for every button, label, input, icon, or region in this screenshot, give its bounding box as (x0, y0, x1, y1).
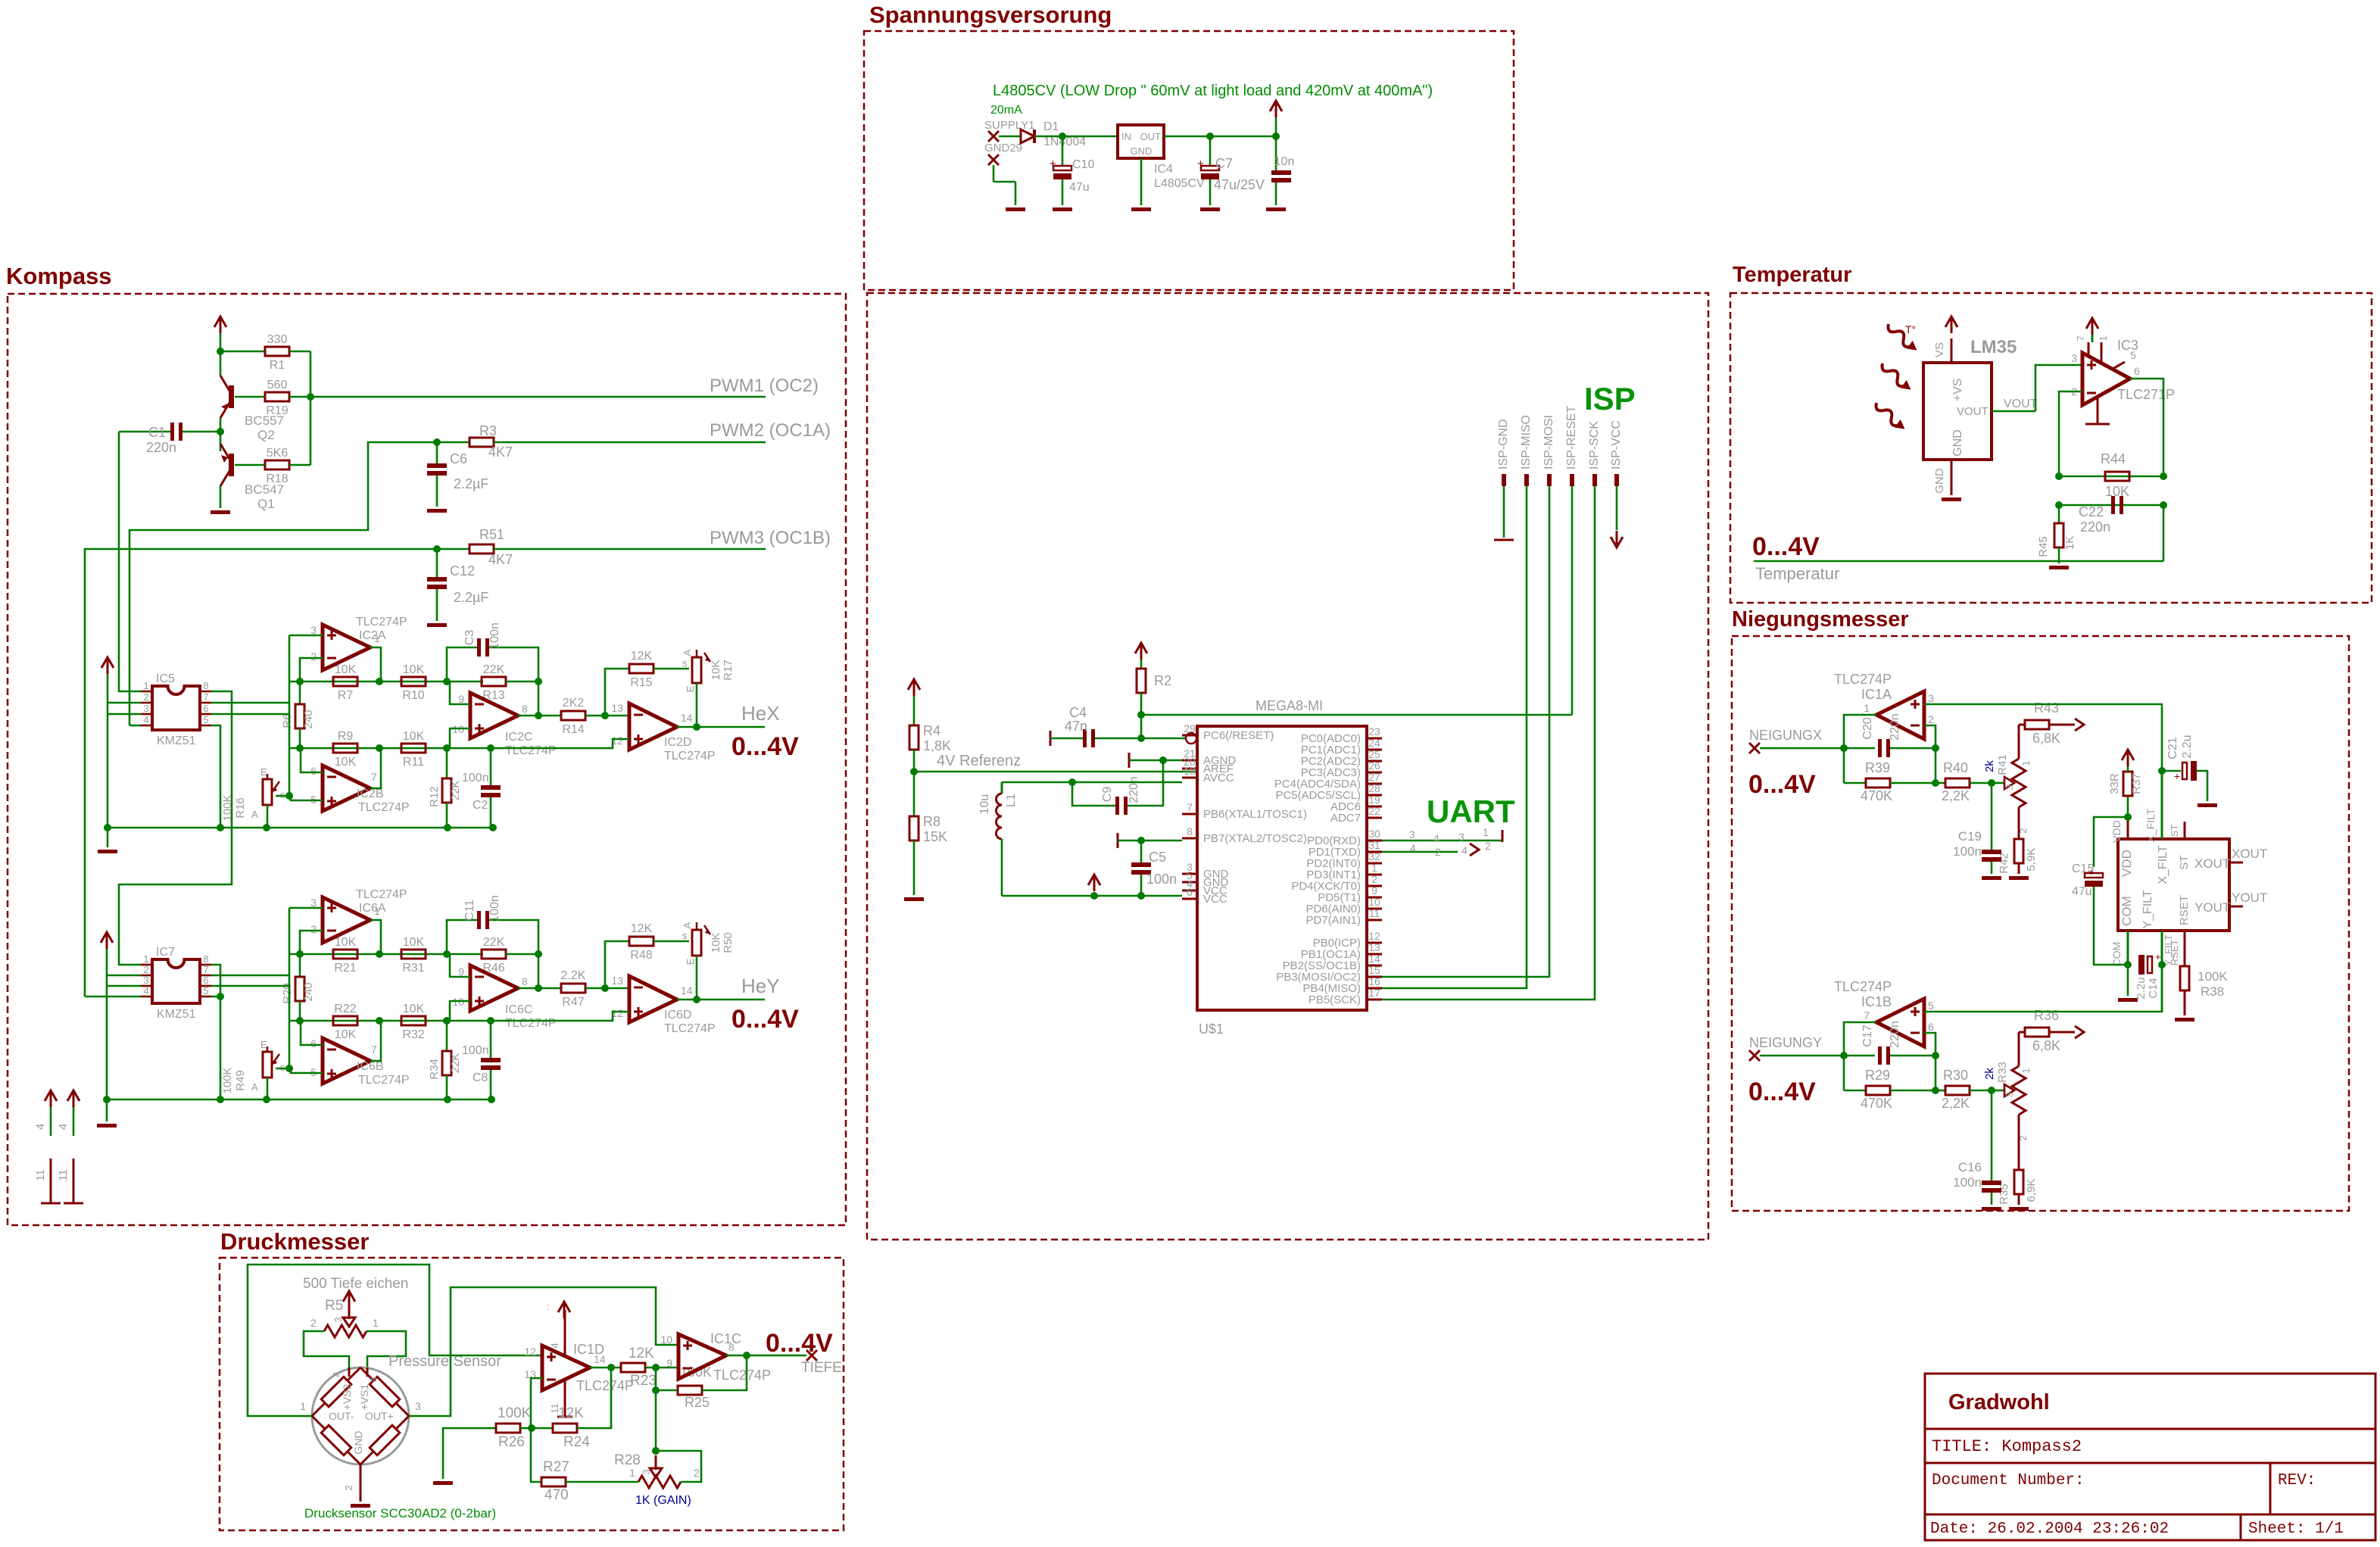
wire input to node (1760, 1055, 1875, 1057)
svg-text:IC6B: IC6B (357, 1060, 384, 1073)
svg-text:X_FILT: X_FILT (2144, 808, 2157, 842)
svg-text:4: 4 (57, 1124, 70, 1130)
svg-text:C17: C17 (1861, 1025, 1874, 1046)
pin 3 IC5 (141, 713, 152, 716)
svg-text:3: 3 (2004, 784, 2015, 790)
wire VCC-GND column IC7 (106, 949, 108, 1099)
resistor R26 100K (486, 1427, 496, 1430)
bridge resistors (312, 1368, 360, 1416)
supply arrow VCC IC7 (101, 932, 113, 943)
svg-text:10K: 10K (403, 1003, 425, 1015)
svg-text:GND: GND (1951, 429, 1964, 457)
svg-text:C5: C5 (1149, 850, 1166, 865)
svg-text:R22: R22 (334, 1003, 356, 1015)
svg-text:R49: R49 (234, 1070, 247, 1091)
resistor R34 22K vertical (446, 1021, 448, 1051)
IC1D power pin4 (564, 1310, 566, 1356)
resistor R27 470 (531, 1428, 541, 1482)
ground under R42 (2009, 876, 2029, 880)
svg-text:TLC271P: TLC271P (2117, 387, 2175, 402)
svg-text:2,2K: 2,2K (1942, 1096, 1970, 1111)
IC3 gnd pin4 (2097, 397, 2099, 424)
svg-text:R19: R19 (266, 404, 288, 417)
wire Q1 base to R18 (235, 464, 265, 466)
svg-text:30: 30 (1368, 828, 1380, 840)
pin 30 PD0(RXD) (1367, 840, 1382, 842)
svg-text:TLC274P: TLC274P (664, 1022, 716, 1035)
svg-text:VS: VS (1933, 342, 1946, 357)
svg-text:5,9K: 5,9K (2025, 848, 2038, 872)
resistor R31 10K (401, 950, 426, 959)
svg-text:HeY: HeY (741, 975, 780, 997)
wire Q1 emitter to ground (220, 486, 222, 508)
svg-text:220n: 220n (2080, 519, 2110, 535)
power stub pin11 b (73, 1159, 75, 1203)
svg-text:23: 23 (1368, 725, 1380, 738)
svg-text:5: 5 (1928, 1000, 1934, 1012)
resistor R19 560 (265, 392, 289, 401)
svg-text:470: 470 (544, 1487, 569, 1503)
svg-text:3: 3 (310, 624, 317, 636)
svg-text:10K: 10K (335, 1028, 357, 1041)
svg-text:R10: R10 (402, 689, 424, 702)
svg-text:s: s (280, 789, 285, 800)
ground under R38 (2175, 1018, 2194, 1021)
svg-text:7: 7 (371, 1043, 377, 1056)
capacitor C4 47n (1050, 731, 1052, 746)
capacitor C16 100n (1991, 1090, 1993, 1181)
supply arrow LM35 (1945, 317, 1957, 327)
transistor Q2 BC557 (220, 351, 222, 376)
pin VDD top (2127, 817, 2129, 839)
op-amp IC2A (323, 625, 370, 670)
svg-text:NEIGUNGY: NEIGUNGY (1749, 1035, 1822, 1050)
svg-text:R27: R27 (543, 1459, 569, 1475)
pin 23 PC0(ADC0) (1367, 738, 1382, 740)
wire ISP-MISO to PB4 (1382, 486, 1527, 988)
svg-text:X_FILT: X_FILT (2157, 845, 2169, 884)
svg-text:Temperatur: Temperatur (1755, 564, 1839, 583)
pin X_FILT top (2161, 771, 2163, 839)
wire IC1D out (590, 1367, 622, 1369)
capacitor C8 100n (490, 1021, 492, 1058)
svg-text:R11: R11 (403, 756, 424, 769)
svg-text:C14: C14 (2147, 978, 2160, 999)
pin 15 PB3(MOSI/OC2) (1367, 976, 1382, 978)
wire IC6C minus to node (450, 954, 470, 977)
svg-text:7: 7 (2075, 335, 2086, 341)
ground ISP (1494, 539, 1514, 541)
capacitor C20 220n (1878, 739, 1882, 757)
svg-text:4K7: 4K7 (488, 444, 513, 460)
svg-text:7: 7 (371, 771, 377, 783)
svg-text:2: 2 (143, 691, 148, 703)
wire column to IC2A plus (289, 635, 323, 637)
svg-text:3: 3 (2004, 1092, 2015, 1097)
svg-text:240: 240 (302, 982, 315, 1001)
input column X (289, 635, 291, 796)
wire MEGA8 reset net (1141, 714, 1572, 716)
svg-text:R44: R44 (2101, 451, 2126, 466)
wire IC2B out (370, 748, 381, 788)
wire PWM2 to IC5 pin4 (129, 725, 141, 727)
svg-text:8: 8 (203, 680, 208, 691)
svg-text:C12: C12 (450, 563, 475, 579)
supply arrow R37 (2122, 750, 2134, 760)
svg-text:C21: C21 (2166, 737, 2179, 759)
svg-text:4: 4 (143, 714, 148, 725)
resistor R4 1.8K (909, 725, 919, 750)
svg-text:8: 8 (728, 1341, 735, 1353)
svg-text:R47: R47 (562, 996, 584, 1009)
svg-text:R24: R24 (563, 1434, 590, 1450)
svg-text:PC6(/RESET): PC6(/RESET) (1203, 729, 1274, 742)
ground under C6 (427, 509, 447, 513)
svg-text:R5: R5 (325, 1298, 343, 1314)
svg-text:12K: 12K (631, 922, 653, 935)
svg-text:13: 13 (1368, 941, 1380, 953)
title block frame (1925, 1374, 2375, 1540)
svg-text:470K: 470K (1861, 1096, 1892, 1111)
svg-text:6: 6 (1187, 886, 1193, 898)
svg-text:10K: 10K (403, 730, 425, 743)
node row1 (290, 681, 447, 683)
op-amp IC1A mirrored (1876, 691, 1924, 739)
op-amp IC1D (542, 1346, 590, 1390)
svg-text:100K: 100K (2198, 969, 2228, 984)
wire PWM1 (OC2) (310, 396, 766, 398)
capacitor C14 2.2u (2138, 955, 2144, 975)
capacitor C5 100n (1117, 833, 1119, 848)
svg-text:IC2D: IC2D (664, 736, 691, 749)
svg-text:C16: C16 (1958, 1160, 1982, 1174)
svg-text:OUT+: OUT+ (365, 1410, 394, 1422)
svg-text:3: 3 (143, 975, 148, 986)
wire AVCC (1072, 781, 1182, 784)
wire IC1B plus to Y_FILT (1924, 965, 2162, 1012)
ground under Q1 (211, 510, 230, 514)
svg-text:2,2K: 2,2K (1942, 788, 1970, 803)
svg-text:IC7: IC7 (156, 946, 175, 959)
svg-text:220n: 220n (1128, 776, 1140, 803)
svg-text:TIEFE: TIEFE (801, 1360, 842, 1376)
wire IC6A minus (300, 931, 323, 954)
supply arrow VCC R4 (908, 679, 920, 690)
svg-text:4V Referenz: 4V Referenz (937, 753, 1021, 769)
wire output down to 0..4V (2163, 505, 2165, 561)
ground under C21 (2198, 803, 2217, 807)
trimmer R49 100K (263, 1052, 272, 1078)
svg-text:R39: R39 (1865, 760, 1890, 775)
svg-text:E: E (685, 958, 696, 965)
ground under 10n (1266, 207, 1286, 211)
svg-text:4: 4 (1461, 844, 1468, 856)
wire IC2B minus (301, 748, 323, 772)
pad ISP-GND (1502, 474, 1506, 486)
svg-text:R42: R42 (1998, 853, 2010, 874)
svg-text:7: 7 (1187, 801, 1193, 813)
ground under C10 (1053, 207, 1072, 211)
resistor R47 feedback (538, 987, 562, 990)
op-amp IC2B (323, 766, 370, 811)
svg-text:1: 1 (373, 1317, 379, 1329)
capacitor C2 100n (490, 748, 492, 785)
svg-text:25: 25 (1368, 748, 1380, 760)
svg-text:L4805CV (LOW Drop " 60mV at l: L4805CV (LOW Drop " 60mV at light load a… (993, 83, 1433, 99)
ground under C12 (427, 623, 447, 627)
svg-text:7: 7 (203, 964, 208, 975)
svg-text:1: 1 (1864, 702, 1870, 714)
svg-text:IC6D: IC6D (664, 1009, 691, 1021)
svg-text:Document Number:: Document Number: (1932, 1472, 2085, 1489)
svg-text:R34: R34 (428, 1059, 441, 1080)
svg-text:XOUT: XOUT (2232, 847, 2267, 861)
svg-text:R12: R12 (428, 786, 441, 807)
svg-text:5K6: 5K6 (267, 447, 289, 460)
svg-text:R41: R41 (1996, 754, 2009, 775)
svg-text:PB5(SCK): PB5(SCK) (1309, 993, 1361, 1006)
pin VS top (1951, 338, 1953, 363)
svg-text:1: 1 (300, 1400, 306, 1412)
svg-text:R29: R29 (1865, 1068, 1890, 1083)
resistor R18 5K6 (265, 460, 289, 469)
node row2 (290, 747, 491, 750)
resistor R48 12K to pot (605, 941, 629, 988)
resistor R10 10K (401, 677, 426, 686)
capacitor C7 47u/25V (1209, 136, 1212, 166)
wire PD1 TXD (1382, 851, 1458, 853)
frame MCU section (867, 293, 1708, 1240)
pad NEIGUNG input (1749, 1050, 1760, 1061)
pin RSET bottom (2184, 931, 2186, 966)
wire GND to IC5 pin3 (108, 713, 141, 716)
svg-text:1: 1 (374, 905, 380, 917)
pin 6 VCC (1182, 898, 1197, 900)
wire OUT+ to IC1C plus rail (409, 1287, 678, 1416)
svg-text:R16: R16 (234, 797, 247, 819)
svg-text:2.2µF: 2.2µF (454, 590, 488, 605)
svg-text:IC6A: IC6A (359, 902, 386, 915)
svg-text:+VS1: +VS1 (358, 1383, 370, 1410)
resistor R35 bottom (2018, 1115, 2020, 1133)
svg-text:22K: 22K (449, 781, 462, 801)
regulator IC4 L4805CV (1118, 125, 1164, 158)
IC KMZ51 IC7 (152, 959, 200, 1003)
svg-text:YOUT: YOUT (2194, 900, 2230, 915)
wire IC1A output left (1844, 715, 1876, 783)
svg-text:2: 2 (1928, 713, 1934, 725)
svg-text:100n: 100n (1953, 1175, 1982, 1190)
svg-text:4: 4 (1433, 832, 1440, 844)
wire R18 up to node (289, 464, 310, 466)
svg-text:1: 1 (2098, 335, 2109, 341)
svg-text:10n: 10n (1274, 155, 1295, 168)
svg-text:R31: R31 (402, 962, 424, 975)
svg-text:2: 2 (310, 1317, 317, 1329)
svg-text:47u/25V: 47u/25V (1214, 177, 1265, 192)
IC3 pin5 stub (2113, 362, 2125, 369)
wire minus input (1924, 1033, 1936, 1056)
wire IC6A output (370, 920, 381, 954)
IC KMZ51 IC5 (152, 686, 200, 730)
resistor R22 10K (333, 1016, 357, 1025)
svg-text:24: 24 (1368, 737, 1380, 749)
frame Temperatur (1730, 293, 2372, 603)
svg-text:9: 9 (666, 1357, 672, 1369)
svg-text:IC6C: IC6C (505, 1003, 532, 1016)
diode D1 1N4004 (1021, 129, 1034, 143)
pin 5 IC5 (200, 725, 211, 727)
svg-text:Sheet: 1/1: Sheet: 1/1 (2248, 1520, 2344, 1538)
svg-text:100K: 100K (221, 1067, 234, 1093)
pin 2 IC7 (141, 975, 152, 977)
svg-text:GND: GND (1933, 468, 1946, 494)
svg-text:2: 2 (143, 964, 148, 975)
pin 2 PD4(XCK/T0) (1367, 885, 1382, 887)
svg-text:500 Tiefe eichen: 500 Tiefe eichen (303, 1276, 408, 1292)
frame Spannungsversorgung (864, 31, 1514, 290)
svg-text:100n: 100n (488, 622, 501, 650)
svg-text:2K2: 2K2 (563, 697, 585, 710)
supply arrow VCC (1270, 101, 1282, 111)
pin 9 PD5(T1) (1367, 897, 1382, 899)
svg-text:220n: 220n (146, 440, 176, 455)
wire IC2C minus to node (450, 681, 470, 704)
resistor 240 vertical (299, 954, 301, 977)
svg-text:+: + (2174, 770, 2180, 782)
wire Y_FILT down to IC1B (2161, 965, 2163, 1012)
svg-text:1: 1 (1371, 862, 1377, 874)
svg-text:SUPPLY1: SUPPLY1 (984, 119, 1034, 132)
svg-text:R2: R2 (1154, 673, 1171, 688)
svg-text:14: 14 (681, 712, 693, 724)
svg-text:470K: 470K (1861, 788, 1892, 803)
svg-text:2.2µF: 2.2µF (454, 476, 488, 491)
svg-text:TLC274P: TLC274P (358, 801, 410, 814)
svg-text:22K: 22K (449, 1053, 462, 1074)
svg-text:Temperatur: Temperatur (1733, 263, 1851, 287)
wire IC7 pin7 to IC6A input column (211, 975, 289, 977)
trimmer R50 10K (692, 930, 701, 956)
svg-text:2k: 2k (1983, 1068, 1996, 1080)
wire Q2 base to R19 (235, 396, 265, 398)
svg-text:6: 6 (310, 1037, 317, 1050)
ground under row upper (107, 828, 109, 847)
ground GND29 (1006, 207, 1025, 211)
svg-text:VOUT: VOUT (1957, 405, 1989, 418)
svg-text:0...4V: 0...4V (766, 1329, 833, 1358)
svg-text:PWM2 (OC1A): PWM2 (OC1A) (710, 420, 831, 441)
pin 13 PB1(OC1A) (1367, 953, 1382, 956)
resistor R21 10K (333, 950, 357, 959)
svg-text:C19: C19 (1958, 829, 1982, 844)
svg-text:TLC274P: TLC274P (358, 1074, 410, 1087)
svg-text:ISP: ISP (1584, 381, 1636, 416)
svg-text:13: 13 (611, 975, 623, 987)
pin 6 IC5 (200, 713, 211, 716)
pad NEIGUNG input (1749, 743, 1760, 753)
wire reset to PC6 (1141, 738, 1186, 740)
svg-text:R37: R37 (2130, 773, 2143, 794)
wire IC4 GND down (1140, 158, 1143, 205)
svg-text:R9: R9 (338, 730, 354, 743)
resistor R9 10K (333, 744, 357, 753)
ground under C19 (1982, 876, 2001, 880)
svg-text:33R: 33R (2108, 773, 2121, 794)
wire ISP-VCC down arrow (1616, 486, 1618, 530)
wire IC6B minus (301, 1021, 323, 1045)
svg-text:A: A (682, 922, 693, 928)
wire Q2 emitter to C1 node (220, 418, 222, 432)
svg-text:ISP-RESET: ISP-RESET (1565, 405, 1578, 469)
wire IC2C out (518, 715, 538, 717)
resistor R12 22K vertical (446, 748, 448, 778)
svg-text:6: 6 (203, 703, 208, 714)
op-amp IC6D (629, 976, 677, 1022)
ground under IC4 (1131, 207, 1151, 211)
svg-text:14: 14 (1368, 953, 1380, 965)
frame Niegungsmesser (1732, 636, 2349, 1211)
svg-text:0...4V: 0...4V (1748, 1078, 1816, 1106)
svg-text:5: 5 (203, 985, 208, 997)
wire C9 left to AVCC node (1072, 782, 1115, 806)
svg-text:8: 8 (522, 703, 528, 715)
svg-text:RSET: RSET (2169, 940, 2180, 966)
wire IC7 pin6 to column (211, 985, 289, 987)
svg-text:12: 12 (1368, 930, 1380, 942)
svg-text:a: a (367, 1377, 379, 1383)
svg-text:3: 3 (1409, 828, 1415, 841)
svg-text:YOUT: YOUT (2232, 890, 2267, 905)
wire diode to IC4 IN (1034, 136, 1118, 138)
svg-text:Gradwohl: Gradwohl (1948, 1390, 2050, 1414)
pin COM bottom (2127, 931, 2129, 965)
wire R4 to node (913, 750, 916, 772)
wire IC1C out to TIEFE (726, 1355, 806, 1357)
pin 22 ADC7 (1367, 817, 1382, 819)
pin 20 AREF (1182, 768, 1197, 770)
pin 19 ADC6 (1367, 806, 1382, 808)
svg-text:1K: 1K (2063, 536, 2076, 550)
wire R51 to PWM3 (494, 548, 766, 550)
svg-text:29: 29 (1184, 722, 1196, 735)
pin XOUT (2229, 862, 2243, 864)
svg-text:3: 3 (310, 897, 317, 909)
svg-text:R35: R35 (1998, 1184, 2010, 1205)
supply arrow pin4 a (45, 1090, 57, 1101)
svg-text:0...4V: 0...4V (1748, 770, 1816, 799)
svg-text:GND: GND (352, 1430, 364, 1454)
wire PWM3 to IC7 pin4 (85, 996, 141, 998)
pin 7 PB6(XTAL1/TOSC1) (1182, 813, 1197, 816)
wire R16 wiper node (276, 795, 289, 797)
op-amp IC3 TLC271 (2082, 353, 2130, 405)
svg-text:PB6(XTAL1/TOSC1): PB6(XTAL1/TOSC1) (1203, 808, 1307, 821)
svg-text:NEIGUNGX: NEIGUNGX (1749, 728, 1822, 743)
wire GND to IC7 pin3 (107, 985, 141, 987)
resistor R43 6.8K (2018, 725, 2020, 759)
wire IC1D minus (531, 1378, 542, 1428)
svg-text:R25: R25 (685, 1395, 710, 1410)
svg-text:C4: C4 (1069, 705, 1087, 720)
svg-text:100n: 100n (462, 1044, 489, 1057)
svg-text:220n: 220n (1889, 713, 1901, 741)
wire R2 down (1140, 693, 1143, 738)
pin 8 IC5 (200, 691, 211, 693)
svg-text:10K: 10K (403, 936, 425, 949)
svg-text:10K: 10K (335, 936, 357, 949)
wire IC4 OUT to VCC (1164, 136, 1276, 138)
